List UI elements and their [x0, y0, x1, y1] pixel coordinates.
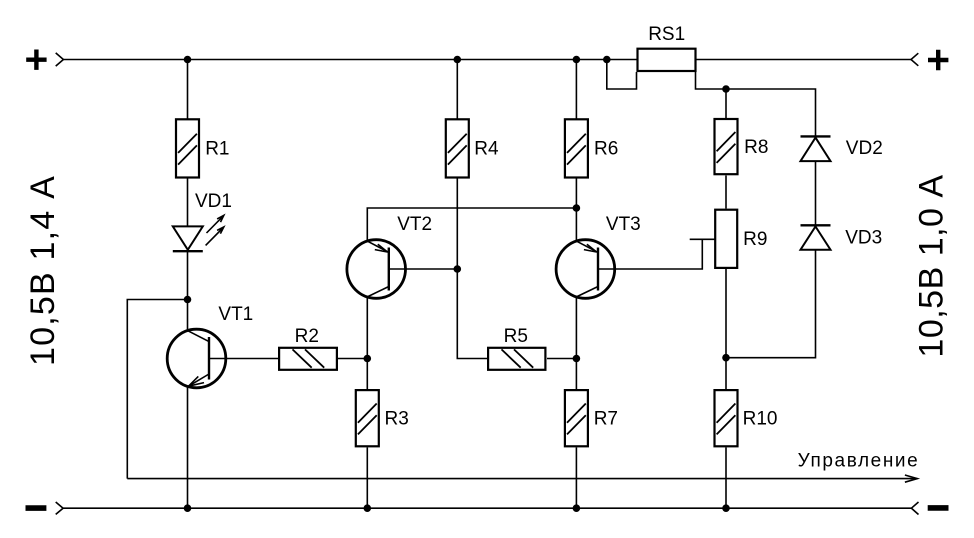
- wire VD3 return: [726, 250, 816, 358]
- wire R3 to bottom rail: [366, 448, 368, 509]
- node: top rail / R1 junction: [184, 56, 192, 64]
- node R6 / VT2 emitter wire / VT3: [573, 204, 581, 212]
- node R3 / bottom rail: [364, 504, 372, 512]
- svg-text:VD1: VD1: [195, 191, 232, 212]
- wire control line: [127, 478, 917, 480]
- resistor R2: [279, 348, 337, 370]
- plus terminal left: [26, 50, 46, 70]
- bottom rail right arrowhead: [911, 502, 918, 515]
- svg-text:R7: R7: [594, 409, 618, 430]
- wire VD1 to VT1 collector: [187, 251, 189, 330]
- svg-text:VT1: VT1: [218, 304, 253, 325]
- svg-text:VD2: VD2: [846, 138, 883, 159]
- svg-text:R2: R2: [295, 326, 319, 347]
- wire R9 bottom to node: [725, 269, 727, 358]
- node R5 / VT3 / R7 junction: [573, 355, 581, 363]
- wire R7 to bottom rail: [575, 448, 577, 509]
- wire R1 top lead: [187, 60, 189, 119]
- node top rail / R6: [573, 56, 581, 64]
- wire R10 to bottom rail: [725, 448, 727, 509]
- node VD1/VT1/control junction: [184, 296, 192, 304]
- node R9 / VD3 / R10 junction: [722, 354, 730, 362]
- wire VT3 collector down to R7: [575, 297, 577, 389]
- wire RS1 left sense tap: [607, 60, 637, 90]
- wire R8 top lead: [725, 89, 727, 118]
- wire VT2 emitter up and to R6 column: [367, 208, 576, 241]
- wire VT2 collector down to R3: [366, 297, 368, 389]
- resistor R3: [356, 390, 379, 446]
- svg-text:10,5В 1,4 А: 10,5В 1,4 А: [24, 175, 62, 366]
- wire R4 top lead: [456, 60, 458, 119]
- wire RS1 right sense tap: [696, 72, 816, 136]
- node R10 / bottom rail: [722, 504, 730, 512]
- node RS1 sense / R8: [722, 85, 730, 93]
- wire R10 top lead: [725, 358, 727, 389]
- node R2 / VT2 / R3 junction: [364, 355, 372, 363]
- resistor R10: [715, 390, 738, 446]
- wire VT1 base to R2: [209, 358, 278, 360]
- svg-text:VT3: VT3: [606, 214, 641, 235]
- resistor R5: [488, 348, 545, 370]
- resistor R8: [715, 119, 738, 174]
- svg-text:R1: R1: [205, 139, 229, 160]
- node VT1 emitter / bottom rail: [184, 504, 192, 512]
- node VT2 base / R4: [454, 265, 462, 273]
- wire R6 top lead: [575, 60, 577, 119]
- minus terminal left: [26, 505, 47, 511]
- wire top rail right section: [697, 59, 912, 61]
- svg-text:R4: R4: [474, 139, 499, 160]
- wire control feedback down: [127, 300, 187, 479]
- wire R6 bottom lead: [575, 179, 577, 242]
- wire VT1 emitter to bottom rail: [187, 386, 189, 508]
- wire R1 to VD1: [187, 179, 189, 227]
- wire R2 to VT2 collector column: [338, 358, 367, 360]
- wire R5 to VT3 column: [547, 358, 576, 360]
- resistor R7: [565, 390, 588, 446]
- wire bottom rail: [63, 507, 911, 509]
- svg-text:R6: R6: [594, 139, 618, 160]
- R9 wiper tap line: [690, 238, 715, 240]
- svg-text:R3: R3: [385, 409, 409, 430]
- control line arrowhead: [905, 475, 917, 482]
- bottom rail left arrowhead: [56, 502, 63, 514]
- transistor VT1: [167, 329, 226, 388]
- transistor VT2: [347, 240, 406, 299]
- svg-text:R5: R5: [504, 326, 528, 347]
- node top rail / R4: [454, 56, 462, 64]
- shunt RS1: [638, 49, 696, 71]
- svg-text:Управление: Управление: [798, 450, 920, 471]
- resistor R9 (adjustable): [715, 210, 737, 268]
- top rail left arrowhead: [56, 53, 64, 66]
- LED VD1 light arrows: [206, 215, 224, 245]
- minus terminal right: [928, 505, 949, 511]
- plus terminal right: [928, 50, 948, 70]
- wire R4 to base node and down to R5: [457, 179, 487, 359]
- diode VD3: [801, 225, 831, 249]
- svg-text:RS1: RS1: [648, 24, 685, 45]
- resistor R1: [176, 119, 199, 177]
- svg-text:VD3: VD3: [845, 228, 882, 249]
- svg-text:VT2: VT2: [397, 214, 432, 235]
- wire top rail left section: [63, 59, 636, 61]
- node R7 / bottom rail: [573, 504, 581, 512]
- svg-text:R9: R9: [743, 229, 767, 250]
- wire R8 to R9: [725, 176, 727, 209]
- wire VT3 base to R9 wiper: [598, 239, 702, 269]
- svg-text:R8: R8: [744, 137, 768, 158]
- svg-text:10,5В 1,0 А: 10,5В 1,0 А: [913, 174, 951, 357]
- resistor R4: [446, 119, 469, 177]
- LED VD1: [173, 226, 203, 251]
- top rail right arrowhead: [911, 53, 918, 66]
- diode VD2: [801, 136, 831, 161]
- svg-text:R10: R10: [743, 409, 778, 430]
- node top rail / RS1 left sense tap: [603, 56, 611, 64]
- resistor R6: [565, 119, 588, 177]
- wire VT2 base lead: [389, 268, 458, 270]
- transistor VT3: [556, 240, 615, 299]
- wire VD2 to VD3: [815, 161, 817, 225]
